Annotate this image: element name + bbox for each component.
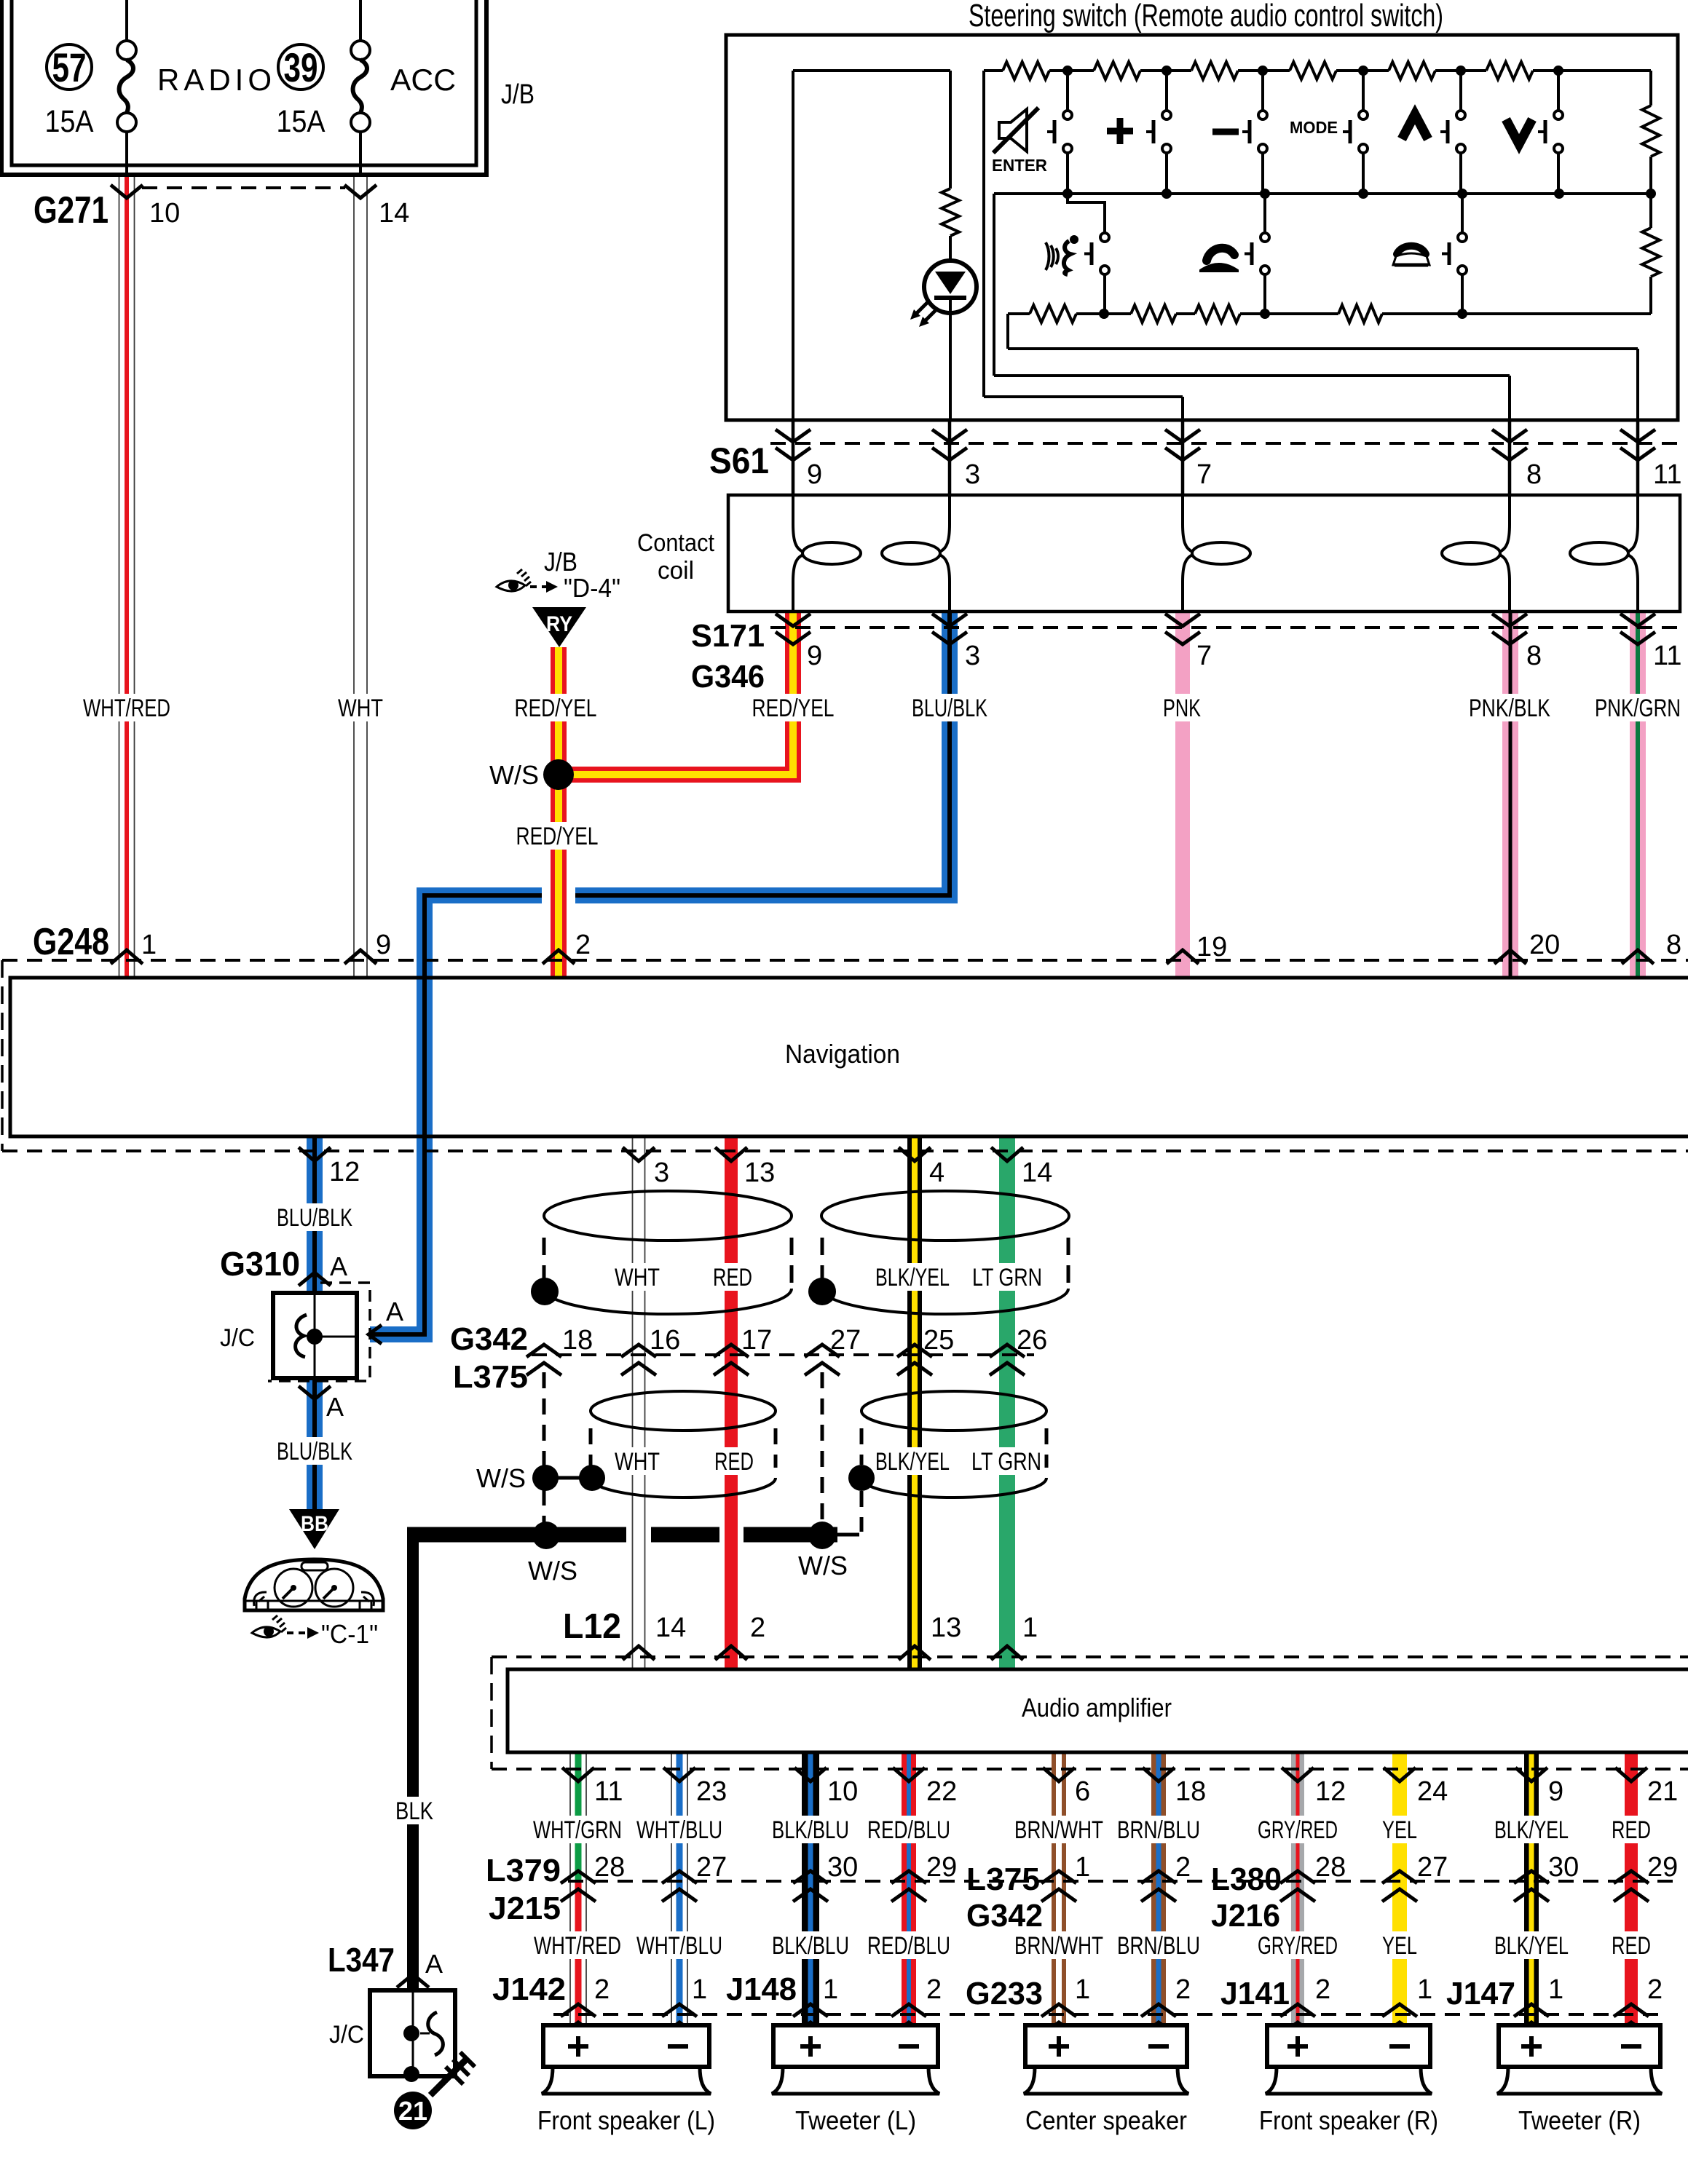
svg-text:9: 9 xyxy=(1548,1776,1563,1807)
svg-text:1: 1 xyxy=(1075,1852,1090,1883)
svg-text:WHT/BLU: WHT/BLU xyxy=(636,1816,722,1844)
shielded cable left (WHT RED) xyxy=(544,1191,792,1241)
svg-text:RED: RED xyxy=(1612,1932,1651,1960)
svg-text:W/S: W/S xyxy=(489,760,539,790)
W/S shield junction dots xyxy=(532,1465,559,1491)
svg-text:RY: RY xyxy=(546,612,572,636)
svg-text:13: 13 xyxy=(931,1613,961,1643)
BB triangle to instrument cluster xyxy=(289,1509,339,1549)
svg-text:BLK/YEL: BLK/YEL xyxy=(875,1264,950,1291)
coil loops xyxy=(792,495,794,524)
svg-text:30: 30 xyxy=(827,1852,858,1883)
wire BRN/BLU amp-18 to G233-2 xyxy=(1151,1752,1166,2025)
svg-text:BLK: BLK xyxy=(395,1797,433,1825)
svg-text:WHT/GRN: WHT/GRN xyxy=(533,1816,622,1844)
wire WHT/RED L379-28 to J142-2 xyxy=(569,1881,571,2025)
switch voice xyxy=(1068,194,1105,233)
svg-text:10: 10 xyxy=(149,198,180,229)
svg-text:G271: G271 xyxy=(33,189,109,232)
svg-text:J148: J148 xyxy=(726,1971,797,2007)
wire WHT/BLU amp-23 to J142-1 xyxy=(671,1752,672,2025)
svg-text:16: 16 xyxy=(650,1325,680,1356)
svg-text:7: 7 xyxy=(1196,641,1212,671)
fuse 39 ACC 15A xyxy=(359,0,362,41)
Navigation bottom connector pins xyxy=(299,1147,331,1161)
svg-text:GRY/RED: GRY/RED xyxy=(1258,1816,1338,1844)
J/C junction block G310 xyxy=(268,1283,370,1381)
svg-text:1: 1 xyxy=(1075,1974,1090,2005)
svg-text:BLK/YEL: BLK/YEL xyxy=(1494,1816,1569,1844)
wire PNK/BLK S171-8 to G248-20 xyxy=(1502,612,1518,978)
svg-text:Front speaker (L): Front speaker (L) xyxy=(537,2105,715,2135)
wire WHT/RED G271-10 to G248-1 xyxy=(119,175,120,978)
svg-text:BB: BB xyxy=(301,1512,328,1536)
svg-text:28: 28 xyxy=(594,1852,625,1883)
svg-text:28: 28 xyxy=(1315,1852,1346,1883)
svg-text:9: 9 xyxy=(807,459,822,490)
instrument cluster icon xyxy=(245,1559,383,1610)
svg-text:RED: RED xyxy=(713,1264,752,1291)
svg-text:RED/YEL: RED/YEL xyxy=(752,695,835,722)
junction box J/B (fuse box) xyxy=(1,0,486,175)
svg-text:J215: J215 xyxy=(489,1891,561,1926)
resistor R-LED xyxy=(949,71,952,189)
svg-text:"C-1": "C-1" xyxy=(321,1619,378,1649)
svg-text:1: 1 xyxy=(1417,1974,1432,2005)
svg-text:J/B: J/B xyxy=(501,79,535,110)
svg-text:W/S: W/S xyxy=(798,1551,848,1580)
wire WHT/GRN amp-11 to L379-28 xyxy=(569,1752,571,1881)
svg-text:13: 13 xyxy=(744,1158,775,1188)
svg-text:30: 30 xyxy=(1548,1852,1579,1883)
svg-text:57: 57 xyxy=(52,44,87,90)
switch volume + xyxy=(1165,71,1168,111)
svg-text:RED/YEL: RED/YEL xyxy=(515,695,597,722)
svg-text:27: 27 xyxy=(1417,1852,1448,1883)
wire WHT Navigation-3 to L12-14 xyxy=(632,1136,634,1669)
svg-text:14: 14 xyxy=(655,1613,686,1643)
svg-text:15A: 15A xyxy=(277,104,326,139)
svg-text:29: 29 xyxy=(926,1852,957,1883)
svg-text:2: 2 xyxy=(594,1974,610,2005)
speaker Front speaker (R) xyxy=(1267,2025,1430,2067)
bottom resistor row xyxy=(1008,312,1030,315)
svg-text:3: 3 xyxy=(654,1158,669,1188)
wire PNK S171-7 to G248-19 xyxy=(1175,612,1190,978)
svg-text:S171: S171 xyxy=(691,618,765,654)
speaker terminals xyxy=(568,2044,588,2049)
svg-text:J142: J142 xyxy=(492,1971,566,2007)
svg-text:PNK/BLK: PNK/BLK xyxy=(1469,695,1550,722)
svg-text:4: 4 xyxy=(929,1158,944,1188)
svg-text:1: 1 xyxy=(141,930,157,960)
svg-text:8: 8 xyxy=(1526,459,1542,490)
wire BLK/YEL Navigation-4 to L12-13 xyxy=(907,1136,922,1669)
svg-text:BLU/BLK: BLU/BLK xyxy=(912,695,987,722)
switch phone hangup xyxy=(1461,194,1464,233)
wire WHT G271-14 to G248-9 xyxy=(353,175,355,978)
svg-text:L379: L379 xyxy=(486,1853,561,1888)
svg-text:J141: J141 xyxy=(1220,1976,1290,2011)
wire RED amp-21 to J147-2 xyxy=(1625,1752,1638,2025)
arrow A right entry xyxy=(368,1325,382,1344)
wire pin9 loop feed xyxy=(792,71,794,420)
wire BLK/BLU amp-10 to J148-1 xyxy=(802,1752,819,2025)
svg-text:17: 17 xyxy=(741,1325,772,1356)
svg-text:Audio amplifier: Audio amplifier xyxy=(1022,1693,1172,1722)
svg-text:WHT/BLU: WHT/BLU xyxy=(636,1932,722,1960)
svg-text:12: 12 xyxy=(329,1157,360,1187)
svg-text:Steering switch (Remote audio: Steering switch (Remote audio control sw… xyxy=(969,0,1443,33)
second bus xyxy=(994,192,1651,195)
svg-text:J147: J147 xyxy=(1446,1976,1515,2011)
wire BLK from W/S bus to L347 J/C ground xyxy=(407,1527,419,1990)
svg-text:G342: G342 xyxy=(450,1321,528,1357)
svg-text:WHT: WHT xyxy=(338,695,383,722)
switch seek up xyxy=(1459,71,1462,111)
svg-text:11: 11 xyxy=(1653,641,1681,671)
Audio amplifier box xyxy=(508,1669,1688,1752)
svg-text:BLU/BLK: BLU/BLK xyxy=(277,1438,352,1465)
svg-text:BLK/YEL: BLK/YEL xyxy=(875,1448,950,1476)
speaker Tweeter (L) xyxy=(773,2025,938,2067)
svg-text:8: 8 xyxy=(1666,930,1681,960)
svg-text:L12: L12 xyxy=(563,1607,621,1646)
svg-text:J/C: J/C xyxy=(220,1324,255,1352)
svg-text:coil: coil xyxy=(658,557,694,585)
switch ENTER (mute) xyxy=(1066,71,1069,111)
amplifier bottom connector pins xyxy=(562,1768,594,1781)
svg-text:G310: G310 xyxy=(220,1245,300,1283)
svg-text:RED/BLU: RED/BLU xyxy=(867,1816,950,1844)
svg-text:18: 18 xyxy=(562,1325,593,1356)
svg-text:BRN/BLU: BRN/BLU xyxy=(1117,1932,1200,1960)
svg-text:BLK/BLU: BLK/BLU xyxy=(772,1932,849,1960)
wire W/S bus thick black xyxy=(407,1527,626,1543)
svg-text:GRY/RED: GRY/RED xyxy=(1258,1932,1338,1960)
svg-text:2: 2 xyxy=(1315,1974,1330,2005)
ground ref circled 21 xyxy=(394,2092,432,2129)
svg-text:WHT/RED: WHT/RED xyxy=(83,695,170,722)
switch MODE xyxy=(1362,71,1365,111)
svg-text:14: 14 xyxy=(1022,1158,1052,1188)
svg-text:1: 1 xyxy=(823,1974,838,2005)
svg-text:G346: G346 xyxy=(691,659,765,695)
svg-text:Tweeter (L): Tweeter (L) xyxy=(795,2105,916,2135)
svg-text:G248: G248 xyxy=(33,921,109,963)
svg-text:6: 6 xyxy=(1075,1776,1090,1807)
svg-text:L380: L380 xyxy=(1211,1861,1282,1897)
wire GRY/RED amp-12 to J141-2 xyxy=(1291,1752,1304,2025)
ground symbol xyxy=(430,2059,467,2095)
svg-text:19: 19 xyxy=(1196,932,1227,962)
svg-text:18: 18 xyxy=(1175,1776,1206,1807)
svg-text:W/S: W/S xyxy=(476,1463,526,1493)
wire RED/YEL S171-9 branch xyxy=(559,612,793,775)
svg-text:RED/BLU: RED/BLU xyxy=(867,1932,950,1960)
shield drain dashes xyxy=(543,1372,546,1465)
svg-text:BLU/BLK: BLU/BLK xyxy=(277,1204,352,1232)
svg-text:RED/YEL: RED/YEL xyxy=(516,823,599,850)
top resistor bus xyxy=(984,69,1003,72)
wire BLU/BLK S171-3 to J/C G310 xyxy=(370,612,950,1334)
speaker Front speaker (L) xyxy=(543,2025,709,2067)
svg-text:29: 29 xyxy=(1647,1852,1678,1883)
speaker Center speaker xyxy=(1025,2025,1187,2067)
svg-text:11: 11 xyxy=(594,1776,623,1807)
svg-text:BRN/WHT: BRN/WHT xyxy=(1014,1932,1103,1960)
wire RED/YEL from RY triangle to G248-2 xyxy=(551,647,567,978)
svg-text:1: 1 xyxy=(692,1974,707,2005)
svg-text:J/B: J/B xyxy=(544,547,577,577)
routes to S61 pins xyxy=(982,71,985,397)
svg-text:WHT/RED: WHT/RED xyxy=(534,1932,621,1960)
wire BRN/WHT amp-6 to G233-1 xyxy=(1052,1752,1066,2025)
svg-text:W/S: W/S xyxy=(528,1556,577,1586)
RY power triangle xyxy=(532,607,586,647)
Navigation box xyxy=(10,978,1688,1136)
right resistors column xyxy=(1649,71,1652,106)
wire PNK/GRN S171-11 to G248-8 xyxy=(1630,612,1646,978)
svg-text:J216: J216 xyxy=(1211,1898,1280,1934)
svg-text:ENTER: ENTER xyxy=(992,156,1047,175)
LED light arrows xyxy=(923,309,937,323)
W/S junction on RED/YEL xyxy=(543,759,574,790)
svg-text:7: 7 xyxy=(1196,459,1212,490)
wire LT GRN Navigation-14 to L12-1 xyxy=(999,1136,1015,1669)
small shielded cable right xyxy=(861,1391,1046,1431)
svg-text:"D-4": "D-4" xyxy=(564,573,620,603)
speaker Tweeter (R) xyxy=(1499,2025,1660,2067)
svg-text:8: 8 xyxy=(1526,641,1542,671)
svg-text:3: 3 xyxy=(965,459,980,490)
svg-text:A: A xyxy=(326,1392,344,1422)
svg-text:RED: RED xyxy=(714,1448,754,1476)
svg-text:WHT: WHT xyxy=(615,1448,660,1476)
switch seek down xyxy=(1557,71,1560,111)
LED D1 xyxy=(949,236,952,261)
svg-text:MODE: MODE xyxy=(1290,118,1338,137)
svg-text:Front speaker (R): Front speaker (R) xyxy=(1259,2105,1438,2135)
svg-text:27: 27 xyxy=(696,1852,727,1883)
shielded cable right (BLK/YEL LT GRN) xyxy=(821,1191,1069,1241)
svg-text:2: 2 xyxy=(1647,1974,1663,2005)
svg-text:G342: G342 xyxy=(966,1898,1043,1934)
svg-text:YEL: YEL xyxy=(1382,1932,1417,1960)
svg-text:2: 2 xyxy=(1175,1974,1191,2005)
svg-text:27: 27 xyxy=(830,1325,861,1356)
svg-text:BLK/BLU: BLK/BLU xyxy=(772,1816,849,1844)
svg-text:2: 2 xyxy=(1175,1852,1191,1883)
svg-text:PNK: PNK xyxy=(1163,695,1201,722)
svg-text:LT GRN: LT GRN xyxy=(971,1448,1041,1476)
svg-text:PNK/GRN: PNK/GRN xyxy=(1595,695,1681,722)
svg-text:YEL: YEL xyxy=(1382,1816,1417,1844)
svg-text:ACC: ACC xyxy=(390,63,456,97)
svg-text:LT GRN: LT GRN xyxy=(972,1264,1042,1291)
svg-text:25: 25 xyxy=(923,1325,954,1356)
svg-text:Tweeter (R): Tweeter (R) xyxy=(1518,2105,1641,2135)
svg-text:RED: RED xyxy=(1612,1816,1651,1844)
J/C bottom exit xyxy=(299,1386,331,1399)
svg-text:WHT: WHT xyxy=(615,1264,660,1291)
fuse 57 RADIO 15A xyxy=(125,0,128,41)
svg-text:39: 39 xyxy=(284,44,318,90)
svg-text:14: 14 xyxy=(379,198,409,229)
svg-text:A: A xyxy=(330,1251,347,1281)
svg-text:21: 21 xyxy=(1647,1776,1678,1807)
svg-text:A: A xyxy=(425,1949,443,1979)
svg-text:RADIO: RADIO xyxy=(157,63,276,97)
wire name labels xyxy=(77,694,176,721)
svg-text:26: 26 xyxy=(1017,1325,1047,1356)
svg-text:23: 23 xyxy=(696,1776,727,1807)
svg-text:2: 2 xyxy=(926,1974,942,2005)
svg-text:2: 2 xyxy=(575,930,591,960)
svg-text:L375: L375 xyxy=(453,1359,528,1395)
svg-text:2: 2 xyxy=(750,1613,765,1643)
svg-text:21: 21 xyxy=(398,2096,427,2126)
contact coil box xyxy=(728,495,1680,612)
svg-text:20: 20 xyxy=(1529,930,1560,960)
wire RED Navigation-13 to L12-2 xyxy=(725,1136,738,1669)
wire RED/BLU amp-22 to J148-2 xyxy=(902,1752,916,2025)
svg-text:1: 1 xyxy=(1548,1974,1563,2005)
svg-text:9: 9 xyxy=(376,930,391,960)
J/C junction block L347 with ground xyxy=(370,1990,455,2076)
svg-text:15A: 15A xyxy=(45,104,94,139)
wire YEL amp-24 to J141-1 xyxy=(1392,1752,1407,2025)
svg-text:9: 9 xyxy=(807,641,822,671)
eye reference C-1 xyxy=(252,1627,280,1637)
svg-text:Contact: Contact xyxy=(637,529,714,557)
svg-text:J/C: J/C xyxy=(329,2021,364,2049)
small shielded cable left xyxy=(591,1391,776,1431)
svg-text:11: 11 xyxy=(1653,459,1681,490)
svg-text:Center speaker: Center speaker xyxy=(1025,2105,1187,2135)
svg-text:24: 24 xyxy=(1417,1776,1448,1807)
svg-text:S61: S61 xyxy=(709,440,769,481)
svg-text:BLK/YEL: BLK/YEL xyxy=(1494,1932,1569,1960)
svg-text:BRN/WHT: BRN/WHT xyxy=(1014,1816,1103,1844)
svg-text:G233: G233 xyxy=(966,1976,1043,2011)
W/S bus junction dots xyxy=(532,1522,560,1549)
svg-text:12: 12 xyxy=(1315,1776,1346,1807)
svg-text:3: 3 xyxy=(965,641,980,671)
wire BLK/YEL amp-9 to J147-1 xyxy=(1524,1752,1539,2025)
svg-text:L347: L347 xyxy=(328,1941,395,1979)
wire BLU/BLK Navigation-12 to J/C to BB xyxy=(307,1136,323,1293)
svg-text:1: 1 xyxy=(1022,1613,1038,1643)
svg-text:10: 10 xyxy=(827,1776,858,1807)
switch phone pickup xyxy=(1263,194,1266,233)
svg-text:L375: L375 xyxy=(966,1861,1040,1897)
svg-text:Navigation: Navigation xyxy=(785,1039,900,1069)
svg-text:BRN/BLU: BRN/BLU xyxy=(1117,1816,1200,1844)
switch volume - xyxy=(1261,71,1264,111)
svg-text:22: 22 xyxy=(926,1776,957,1807)
svg-text:A: A xyxy=(386,1297,403,1326)
